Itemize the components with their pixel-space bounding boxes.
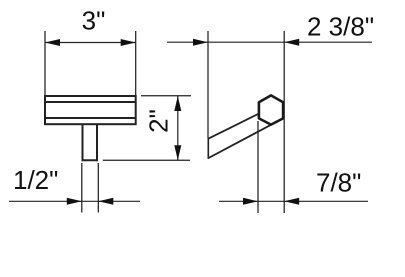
arrowhead pointing left at 7/8 right [284,198,299,205]
extension line left of 3in dim [44,31,46,95]
arrowhead right of 3in dim [121,39,136,46]
arrowhead pointing left at 1/2in right [98,198,113,205]
extension line left of 7/8 dim [257,121,259,213]
extension line bottom of 2in dim [103,159,190,161]
hex end [259,95,283,124]
arrowhead pointing right at 7/8 left [243,198,258,205]
dimension line 2-3/8 [167,41,372,43]
dimension line 2in vertical [177,96,179,160]
dimension line 3in [45,42,136,44]
extension line right of 3in dim [135,31,137,95]
bar inner line upper [45,101,136,103]
svg-text:2": 2" [143,109,173,133]
stem right edge [96,125,98,162]
dimension line 7/8 [219,200,368,202]
bar rectangle (front view of T-bar) [45,96,136,124]
extension line left of 2-3/8 dim (also bar end) [207,31,209,138]
extension line top of 2in dim [141,95,191,97]
extension line right of 2-3/8 and 7/8 dim [283,31,285,213]
arrowhead top of 2in dim [174,96,181,111]
arrowhead pointing right at 2-3/8 left [193,39,208,46]
extension line left of 1/2in dim [81,163,83,213]
dimension line 1/2in [9,200,140,202]
arrowhead bottom of 2in dim [174,145,181,160]
svg-text:7/8": 7/8" [316,168,361,198]
bar inner line lower [45,117,136,119]
bar end edge [207,138,209,159]
arrowhead pointing right at 1/2in left [67,198,82,205]
arrowhead left of 3in dim [45,39,60,46]
svg-text:2 3/8": 2 3/8" [307,12,374,42]
extension line right of 1/2in dim [97,163,99,213]
stem bottom edge [82,159,99,161]
bar bottom edge (diagonal) [209,125,272,158]
arrowhead pointing left at 2-3/8 right [284,39,299,46]
svg-text:3": 3" [82,6,106,36]
bar top edge (diagonal) [209,113,260,138]
svg-text:1/2": 1/2" [13,165,58,195]
stem left edge [82,125,84,162]
